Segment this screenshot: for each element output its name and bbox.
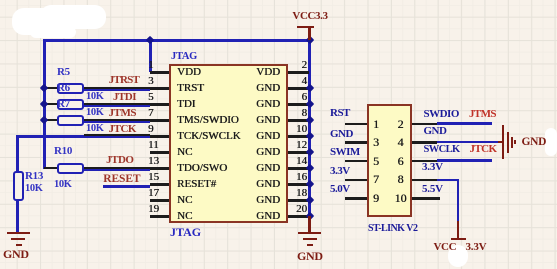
pin 13 name TDO/SWO — [177, 162, 227, 175]
pin 15 number — [148, 171, 159, 184]
pin 10 number (ST-LINK) — [395, 192, 407, 205]
node left-bus junction R5 — [40, 84, 48, 92]
pin 6 number — [302, 91, 308, 104]
node right-bus junction pin 18 — [305, 196, 313, 204]
net label 3.3V (pin8) — [422, 161, 443, 174]
node top-rail/pin1 junction — [146, 36, 154, 44]
pin 1 number (ST-LINK) — [373, 118, 379, 131]
wire JTCK row — [16, 135, 150, 138]
net label JTCK — [109, 123, 136, 136]
power VCC 3.3V (bottom) — [457, 221, 460, 239]
pin 1 stub (ST-LINK) — [345, 123, 367, 126]
node right-bus junction pin 4 — [305, 84, 313, 92]
pin 7 number — [148, 107, 154, 120]
pin 2 number (ST-LINK) — [398, 118, 404, 131]
wire R10 to pin13 (black+blue) — [84, 167, 150, 169]
resistor R5 body — [57, 83, 84, 94]
label ST-LINK V2 — [368, 222, 417, 235]
net label 3.3V — [330, 165, 350, 178]
pin 3 stub — [150, 87, 169, 90]
wire SWDIO (pin2) — [437, 122, 492, 125]
label R6 — [57, 82, 70, 95]
pin 17 number — [148, 187, 159, 200]
value R6 10K — [86, 106, 103, 119]
pin 1 number — [148, 59, 154, 72]
pin 3 name TRST — [177, 82, 204, 95]
pin 18 number — [296, 187, 307, 200]
pin 7 stub (ST-LINK) — [345, 179, 367, 182]
resistor R5 left lead — [44, 87, 57, 89]
pin 20 stub — [288, 215, 309, 218]
node right-bus junction pin 12 — [305, 148, 313, 156]
node left-bus junction R7 — [40, 116, 48, 124]
pin 6 stub (ST-LINK) — [412, 160, 437, 163]
wire R6 to pin (black+blue) — [84, 103, 150, 105]
pin 11 stub — [150, 151, 169, 154]
wire R13 branch vertical upper — [16, 135, 19, 172]
pin 9 stub (ST-LINK) — [345, 197, 367, 200]
pin 20 number — [296, 203, 307, 216]
net label JTMS — [109, 107, 136, 120]
pin 4 number — [302, 75, 308, 88]
pin 4 stub — [288, 87, 309, 90]
wire RESET — [103, 185, 150, 188]
pin 1 name VDD — [177, 66, 201, 79]
resistor R13 body — [13, 171, 24, 201]
pin 5 stub (ST-LINK) — [345, 160, 367, 163]
net label 5.5V (pin10) — [422, 183, 443, 196]
pin 9 number — [148, 123, 154, 136]
pin 18 stub — [288, 199, 309, 202]
pin 4 stub (ST-LINK) — [412, 141, 437, 144]
ground GND (right, rotated) — [498, 141, 503, 143]
wire GND (pin4) — [437, 141, 498, 144]
pin 13 stub — [150, 167, 169, 170]
wire pin1 riser — [149, 40, 152, 72]
pin 6 stub — [288, 103, 309, 106]
wire 3.3V (pin8) horizontal — [437, 179, 459, 182]
net label RESET — [103, 173, 140, 186]
pin 6 name GND — [256, 98, 280, 111]
pin 11 number — [148, 139, 159, 152]
pin 16 number — [296, 171, 307, 184]
wire R13 to ground — [16, 201, 19, 232]
pin 9 number (ST-LINK) — [373, 192, 379, 205]
resistor R6 left lead — [44, 103, 57, 105]
pin 5 number (ST-LINK) — [373, 155, 379, 168]
value R7 10K — [86, 122, 103, 135]
pin 10 number — [296, 123, 307, 136]
pin 11 name NC — [177, 146, 192, 159]
label R10 — [54, 145, 72, 158]
power VCC3.3 — [292, 10, 327, 23]
label JTAG (bottom) — [170, 226, 201, 239]
pin 19 name NC — [177, 210, 192, 223]
node right-bus junction pin 14 — [305, 164, 313, 172]
pin 7 number (ST-LINK) — [373, 173, 379, 186]
value R10 10K — [54, 178, 71, 191]
wire R5 to pin (black+blue) — [84, 87, 150, 89]
pin 4 name GND — [256, 82, 280, 95]
resistor R6 body — [57, 99, 84, 110]
pin 9 stub — [150, 135, 169, 138]
resistor R7 left lead — [44, 119, 57, 121]
pin 14 stub — [288, 167, 309, 170]
pin 5 name TDI — [177, 98, 195, 111]
pin 17 name NC — [177, 194, 192, 207]
pin 20 name GND — [256, 210, 280, 223]
node right-bus junction pin 10 — [305, 132, 313, 140]
pin 2 stub (ST-LINK) — [412, 123, 437, 126]
node right-bus junction pin 16 — [305, 180, 313, 188]
pin 4 number (ST-LINK) — [398, 136, 404, 149]
node right-bus junction pin 20 — [305, 212, 313, 220]
pin 1 stub — [150, 71, 169, 74]
pin 5 stub — [150, 103, 169, 106]
resistor R10 left lead — [44, 167, 57, 169]
pin 8 stub — [288, 119, 309, 122]
wire right bus — [308, 40, 311, 217]
pin 16 stub — [288, 183, 309, 186]
pin 10 stub (ST-LINK) — [412, 197, 440, 200]
pin 17 stub — [150, 199, 169, 202]
pin 14 number — [296, 155, 307, 168]
pin 8 name GND — [256, 114, 280, 127]
net label JTCK — [470, 143, 497, 156]
net label JTDI — [113, 91, 136, 104]
resistor R10 body — [57, 163, 84, 174]
net label RST — [330, 107, 350, 120]
node right-bus junction pin 6 — [305, 100, 313, 108]
resistor R7 body — [57, 115, 84, 126]
value R5 10K — [86, 90, 103, 103]
ground GND (left) — [7, 232, 30, 235]
pin 10 name GND — [256, 130, 280, 143]
node left-bus junction R6 — [40, 100, 48, 108]
pin 8 stub (ST-LINK) — [412, 179, 437, 182]
node top-rail/VCC junction — [305, 36, 313, 44]
pin 3 stub (ST-LINK) — [345, 141, 367, 144]
net label 5.0V — [330, 183, 350, 196]
net label SWDIO — [424, 108, 459, 121]
net label SWCLK — [424, 143, 460, 156]
pin 15 name RESET# — [177, 178, 216, 191]
pin 3 number — [148, 75, 154, 88]
pin 10 stub — [288, 135, 309, 138]
ground GND (JTAG pin20) — [308, 216, 311, 232]
pin 16 name GND — [256, 178, 280, 191]
pin 7 stub — [150, 119, 169, 122]
label R5 — [57, 66, 70, 79]
pin 2 name VDD — [256, 66, 280, 79]
label R7 — [57, 98, 70, 111]
net label JTRST — [109, 74, 139, 87]
pin 8 number — [302, 107, 308, 120]
wire 3.3V (pin8) vertical — [457, 179, 460, 223]
net label JTDO — [106, 154, 133, 167]
pin 6 number (ST-LINK) — [398, 155, 404, 168]
pin 19 number — [148, 203, 159, 216]
pin 9 name TCK/SWCLK — [177, 130, 241, 143]
pin 2 number — [302, 59, 308, 72]
label JTAG (top) — [171, 50, 197, 63]
pin 5 number — [148, 91, 154, 104]
pin 12 stub — [288, 151, 309, 154]
wire left bus — [43, 40, 46, 169]
pin 13 number — [148, 155, 159, 168]
pin 12 number — [296, 139, 307, 152]
net label GND (pin4) — [424, 125, 447, 138]
net label GND — [330, 128, 353, 141]
wire top rail — [43, 39, 311, 42]
pin 8 number (ST-LINK) — [398, 173, 404, 186]
pin 2 stub — [288, 71, 309, 74]
pin 18 name GND — [256, 194, 280, 207]
pin 3 number (ST-LINK) — [373, 136, 379, 149]
label R13 — [25, 170, 43, 183]
pin 19 stub — [150, 215, 169, 218]
node right-bus junction pin 8 — [305, 116, 313, 124]
net label JTMS — [469, 108, 496, 121]
connector ST-LINK V2 body — [367, 104, 412, 217]
pin 15 stub — [150, 183, 169, 186]
pin 7 name TMS/SWDIO — [177, 114, 239, 127]
wire SWCLK (pin6) — [437, 159, 492, 162]
value R13 10K — [25, 182, 42, 195]
connector JTAG (CN) body — [169, 64, 288, 223]
wire R7 to pin (black+blue) — [84, 119, 150, 121]
pin 12 name GND — [256, 146, 280, 159]
pin 14 name GND — [256, 162, 280, 175]
net label SWIM — [330, 146, 360, 159]
